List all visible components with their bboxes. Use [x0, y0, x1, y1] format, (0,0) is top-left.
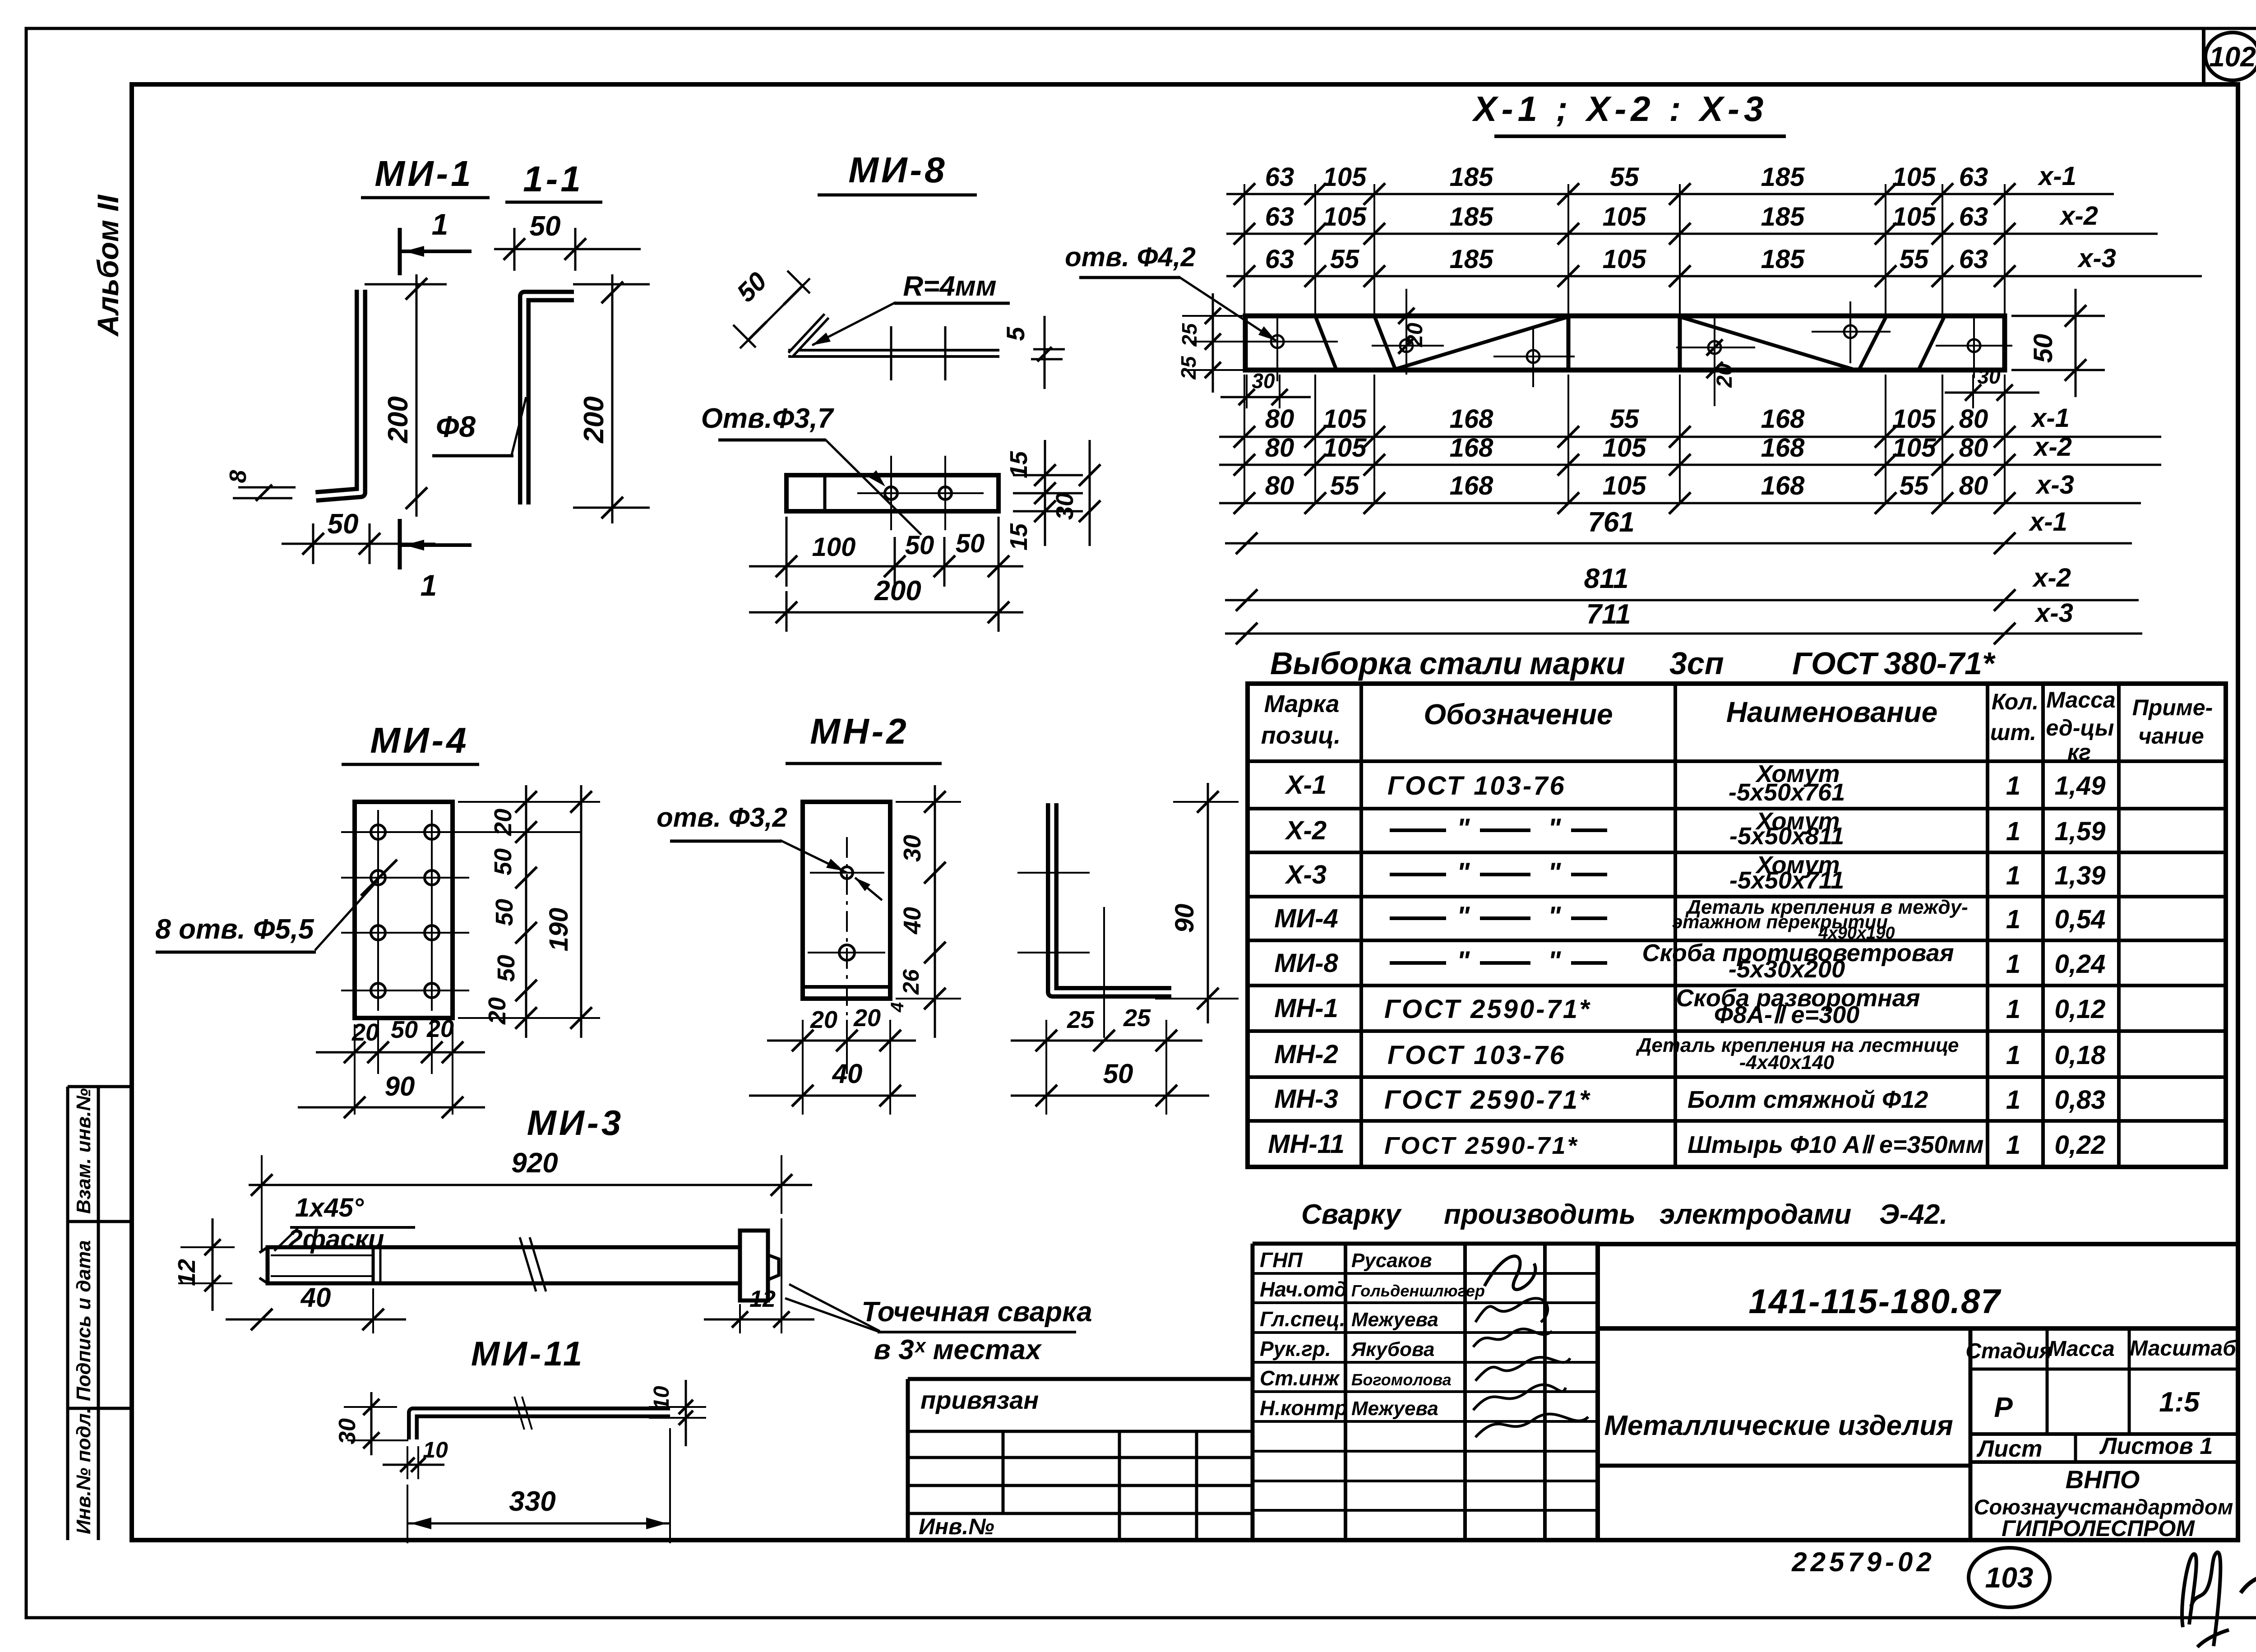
svg-text:": ": [1548, 901, 1562, 931]
МИ-8 plan view plate: [786, 475, 999, 511]
svg-text:х-2: х-2: [2032, 563, 2071, 592]
МН-2 dim 90: [1207, 783, 1209, 1023]
svg-text:Межуева: Межуева: [1351, 1397, 1438, 1420]
svg-text:": ": [1548, 946, 1562, 976]
extension lines to lower dim rows: [1244, 375, 1245, 503]
svg-text:63: 63: [1959, 245, 1988, 274]
svg-text:105: 105: [1603, 202, 1647, 231]
svg-text:10: 10: [423, 1437, 448, 1462]
svg-text:Инв.№: Инв.№: [919, 1514, 994, 1539]
svg-text:20: 20: [1403, 323, 1427, 347]
angle view centerlines: [1017, 872, 1090, 874]
svg-text:30: 30: [334, 1418, 361, 1444]
svg-text:Масштаб: Масштаб: [2130, 1337, 2237, 1360]
svg-text:Точечная сварка: Точечная сварка: [861, 1296, 1092, 1328]
svg-text:30: 30: [1051, 493, 1078, 520]
svg-text:102: 102: [2209, 42, 2256, 73]
strip middle dividers: [1567, 316, 1571, 370]
dim 200 (plan total): [749, 611, 1023, 614]
bolt head: [740, 1231, 768, 1300]
section mark 1 (bottom): [398, 519, 402, 569]
МИ-8 side view: bent-up arm: [791, 316, 827, 355]
dim 30 right below strip: [1972, 375, 1974, 408]
svg-text:190: 190: [544, 908, 573, 952]
svg-text:Р: Р: [1994, 1392, 2013, 1423]
МИ-8 side view: flat bar: [788, 349, 999, 358]
circled page number 103: [1969, 1548, 2050, 1607]
svg-text:25: 25: [1178, 323, 1201, 347]
МИ-4 dim 90: [298, 1106, 485, 1109]
svg-text:100: 100: [812, 532, 856, 562]
svg-text:8: 8: [225, 470, 251, 483]
svg-text:55: 55: [1900, 245, 1929, 274]
dimension row х-1 (lower): [1219, 436, 2161, 438]
svg-text:электродами: электродами: [1660, 1199, 1851, 1230]
svg-text:Стадия: Стадия: [1965, 1339, 2052, 1363]
strip hole 2 with dim 20: [1400, 339, 1413, 352]
svg-text:Инв.№ подл.: Инв.№ подл.: [73, 1408, 95, 1534]
svg-text:30: 30: [899, 835, 926, 862]
svg-text:Болт стяжной Ф12: Болт стяжной Ф12: [1687, 1086, 1928, 1113]
strip hole 6: [1968, 339, 1980, 352]
МИ-4 dim 190: [580, 785, 582, 1038]
svg-text:0,54: 0,54: [2055, 905, 2106, 934]
dim 200 (МИ-1 height): [416, 274, 418, 517]
svg-text:168: 168: [1761, 471, 1805, 500]
svg-text:90: 90: [385, 1071, 415, 1101]
strip body (Хомут): [1245, 316, 2005, 370]
dim 10 (pin thickness right): [649, 1406, 706, 1408]
svg-text:Ст.инж: Ст.инж: [1260, 1366, 1340, 1390]
svg-text:185: 185: [1450, 245, 1494, 274]
svg-text:20: 20: [426, 1015, 454, 1042]
svg-text:МИ-4: МИ-4: [1274, 904, 1338, 933]
МН-2 hole top: [841, 867, 853, 879]
svg-text:63: 63: [1265, 245, 1294, 274]
svg-text:0,12: 0,12: [2055, 995, 2106, 1024]
svg-text:Н.контр: Н.контр: [1260, 1396, 1347, 1420]
dim 25/25 (strip left height): [1212, 293, 1214, 393]
svg-text:30: 30: [1977, 365, 2001, 388]
svg-text:80: 80: [1265, 433, 1294, 463]
dimension row х-3 (lower): [1219, 502, 2141, 504]
svg-text:ГОСТ 103-76: ГОСТ 103-76: [1387, 771, 1566, 801]
МН-2 hole bottom: [839, 945, 855, 960]
extension lines from strip to dim rows: [1244, 184, 1245, 316]
svg-text:63: 63: [1265, 162, 1294, 192]
svg-text:Сварку: Сварку: [1301, 1199, 1402, 1230]
svg-text:1,39: 1,39: [2055, 861, 2106, 890]
svg-text:380-71*: 380-71*: [1884, 646, 1996, 681]
svg-text:105: 105: [1892, 404, 1937, 434]
svg-text:привязан: привязан: [920, 1386, 1039, 1414]
svg-text:0,22: 0,22: [2055, 1130, 2106, 1160]
svg-text:Штырь Ф10 АⅡ е=350мм: Штырь Ф10 АⅡ е=350мм: [1687, 1131, 1983, 1158]
svg-text:х-1: х-1: [2028, 507, 2067, 537]
svg-text:МН-1: МН-1: [1274, 994, 1338, 1023]
svg-text:Э-42.: Э-42.: [1879, 1199, 1947, 1230]
svg-text:3сп: 3сп: [1669, 646, 1724, 681]
sheet number cell top right: [2202, 28, 2205, 84]
svg-text:185: 185: [1761, 245, 1805, 274]
svg-text:105: 105: [1892, 202, 1937, 231]
svg-text:ГОСТ 2590-71*: ГОСТ 2590-71*: [1384, 1132, 1579, 1159]
svg-text:ВНПО: ВНПО: [2066, 1465, 2140, 1494]
svg-text:": ": [1457, 946, 1470, 976]
svg-text:1: 1: [2006, 771, 2020, 801]
svg-text:168: 168: [1450, 404, 1494, 434]
svg-text:168: 168: [1450, 433, 1494, 463]
pin break mark: [514, 1397, 524, 1430]
svg-text:105: 105: [1603, 245, 1647, 274]
svg-text:80: 80: [1959, 433, 1988, 463]
svg-text:50: 50: [2029, 334, 2058, 363]
svg-text:4: 4: [888, 1002, 907, 1013]
svg-text:х-3: х-3: [2034, 598, 2073, 628]
svg-text:": ": [1457, 813, 1470, 843]
svg-text:20: 20: [490, 809, 517, 836]
svg-text:позиц.: позиц.: [1261, 722, 1341, 749]
svg-text:168: 168: [1761, 433, 1805, 463]
svg-text:330: 330: [509, 1486, 555, 1517]
svg-text:50: 50: [328, 509, 359, 540]
svg-text:-4х40х140: -4х40х140: [1739, 1051, 1835, 1074]
svg-text:Подпись и дата: Подпись и дата: [73, 1240, 95, 1401]
svg-text:х-1: х-1: [2030, 403, 2070, 433]
svg-text:ГОСТ 103-76: ГОСТ 103-76: [1387, 1041, 1566, 1070]
МН-2 angle bottom dims 25 25: [1011, 1040, 1202, 1042]
svg-text:105: 105: [1892, 433, 1937, 463]
bolt break mark: [520, 1237, 536, 1291]
signature scribbles: [1484, 1256, 1535, 1290]
strip wedge diagonal left: [1396, 317, 1568, 369]
svg-text:55: 55: [1610, 404, 1639, 434]
dim 330 with arrows: [407, 1485, 408, 1543]
svg-text:1: 1: [432, 208, 448, 241]
svg-text:50: 50: [1103, 1059, 1133, 1089]
dim 30 (bend height): [344, 1406, 397, 1408]
svg-text:": ": [1548, 857, 1562, 888]
svg-text:МИ-1: МИ-1: [374, 153, 473, 194]
svg-text:Гл.спец.: Гл.спец.: [1260, 1307, 1345, 1331]
МН-2 bottom dims 20 20: [767, 1040, 916, 1042]
svg-text:1,49: 1,49: [2055, 771, 2106, 801]
dim 30 left below strip: [1246, 375, 1248, 408]
svg-text:40: 40: [300, 1282, 331, 1313]
svg-text:отв. Ф3,2: отв. Ф3,2: [656, 802, 787, 833]
svg-text:1: 1: [2006, 949, 2020, 979]
svg-text:25: 25: [1123, 1004, 1151, 1032]
svg-text:811: 811: [1584, 563, 1629, 594]
svg-text:в 3ˣ местах: в 3ˣ местах: [874, 1334, 1042, 1365]
attachment table (left of title block): [908, 1377, 1253, 1381]
svg-text:105: 105: [1603, 471, 1647, 500]
svg-text:55: 55: [1330, 245, 1359, 274]
svg-text:185: 185: [1450, 202, 1494, 231]
svg-text:стали: стали: [1419, 646, 1522, 681]
svg-text:50: 50: [491, 899, 518, 926]
svg-text:12: 12: [173, 1259, 200, 1286]
dim 12 (bolt diameter): [180, 1246, 235, 1248]
svg-text:1: 1: [2006, 861, 2020, 890]
svg-text:ГОСТ: ГОСТ: [1792, 646, 1879, 681]
dims 100 50 50 (plan): [749, 565, 1023, 568]
МИ-4 plate: [355, 802, 453, 1018]
svg-text:Альбом II: Альбом II: [91, 194, 125, 337]
strip hole 4 with dim 20: [1708, 341, 1721, 354]
svg-text:Лист: Лист: [1976, 1436, 2043, 1462]
svg-text:80: 80: [1265, 404, 1294, 434]
svg-text:26: 26: [898, 969, 924, 995]
svg-text:200: 200: [578, 396, 610, 443]
svg-text:80: 80: [1959, 404, 1988, 434]
svg-text:5: 5: [1001, 327, 1030, 341]
dim 10 (bend width): [407, 1446, 408, 1479]
svg-text:ГНП: ГНП: [1260, 1248, 1303, 1272]
svg-text:200: 200: [383, 396, 414, 443]
svg-text:50: 50: [956, 529, 985, 558]
svg-text:МИ-4: МИ-4: [370, 720, 469, 760]
МИ-4 right dim chain 20/50/50/50/20: [525, 785, 527, 1038]
dim 12 (head width): [704, 1319, 814, 1321]
svg-text:40: 40: [899, 907, 926, 935]
total dim 761: [1225, 542, 2132, 545]
svg-text:63: 63: [1265, 202, 1294, 231]
svg-text:Якубова: Якубова: [1351, 1338, 1435, 1360]
svg-text:-5х30х200: -5х30х200: [1729, 956, 1845, 983]
svg-text:Металлические изделия: Металлические изделия: [1604, 1410, 1953, 1441]
svg-text:Русаков: Русаков: [1351, 1249, 1432, 1272]
svg-text:1: 1: [2006, 1041, 2020, 1070]
svg-text:40: 40: [832, 1059, 863, 1089]
svg-text:20: 20: [484, 997, 511, 1025]
svg-text:Кол.: Кол.: [1992, 689, 2039, 714]
dim 920: [249, 1184, 812, 1186]
svg-text:55: 55: [1610, 162, 1639, 192]
svg-text:шт.: шт.: [1990, 720, 2036, 745]
total dim 811: [1225, 599, 2139, 602]
svg-text:1: 1: [2006, 995, 2020, 1024]
svg-text:Обозначение: Обозначение: [1424, 698, 1613, 731]
svg-text:Х-2: Х-2: [1285, 816, 1327, 845]
svg-text:Межуева: Межуева: [1351, 1309, 1438, 1331]
svg-text:Взам. инв.№: Взам. инв.№: [73, 1088, 95, 1214]
signature table grid: [1253, 1242, 1600, 1246]
svg-text:105: 105: [1323, 162, 1367, 192]
svg-text:25: 25: [1177, 356, 1200, 380]
strip slant cuts left: [1315, 316, 1336, 370]
dimension row Х-2 (upper): [1226, 233, 2158, 235]
svg-text:200: 200: [874, 575, 921, 606]
svg-text:-5х50х761: -5х50х761: [1729, 779, 1845, 806]
svg-text:Масса: Масса: [2046, 687, 2116, 713]
svg-text:15: 15: [1005, 451, 1032, 478]
dim 50 (1-1 top): [494, 248, 641, 250]
hole 1 in plan: [885, 487, 897, 500]
МИ-4 bottom dims 20 50 20: [316, 1051, 485, 1054]
svg-text:0,18: 0,18: [2055, 1041, 2106, 1070]
title block inner lines: [1969, 1328, 1973, 1540]
svg-text:х-3: х-3: [2035, 470, 2074, 500]
svg-text:Х-1: Х-1: [1285, 770, 1327, 800]
svg-text:55: 55: [1900, 471, 1929, 500]
svg-text:Наименование: Наименование: [1726, 696, 1937, 728]
svg-text:185: 185: [1450, 162, 1494, 192]
strip hole 5: [1844, 325, 1857, 338]
circled sheet number 102: [2205, 32, 2256, 80]
dim 200 (1-1 height): [611, 274, 614, 523]
svg-text:8 отв. Ф5,5: 8 отв. Ф5,5: [155, 914, 314, 945]
1-1 bent bar (Γ-shape): [524, 296, 574, 504]
svg-text:0,24: 0,24: [2055, 949, 2106, 979]
svg-text:0,83: 0,83: [2055, 1085, 2106, 1115]
svg-text:МИ-8: МИ-8: [848, 150, 947, 190]
strip hole 1: [1271, 335, 1284, 348]
svg-text:185: 185: [1761, 162, 1805, 192]
dim 50 (strip height right): [2011, 315, 2105, 317]
svg-text:1х45°: 1х45°: [295, 1193, 364, 1222]
svg-text:761: 761: [1588, 507, 1634, 538]
МН-2 dim 40: [749, 1095, 916, 1097]
МН-2 plate front view: [803, 802, 890, 999]
strip hole 3: [1527, 350, 1539, 363]
dimension row Х-3 (upper): [1226, 275, 2202, 278]
svg-text:20: 20: [853, 1004, 881, 1032]
svg-text:168: 168: [1450, 471, 1494, 500]
МН-2 angle side view: [1052, 803, 1171, 992]
svg-text:10: 10: [650, 1386, 674, 1410]
МИ-4 holes with centerlines: [341, 831, 469, 833]
strip slant cuts right: [1859, 316, 1886, 370]
svg-text:711: 711: [1586, 599, 1631, 630]
svg-text:МИ-11: МИ-11: [471, 1335, 585, 1373]
svg-text:": ": [1548, 813, 1562, 843]
svg-text:15: 15: [1005, 523, 1032, 551]
svg-text:МН-2: МН-2: [1274, 1040, 1338, 1069]
svg-text:ГОСТ 2590-71*: ГОСТ 2590-71*: [1384, 995, 1591, 1024]
svg-text:185: 185: [1761, 202, 1805, 231]
svg-text:1: 1: [2006, 817, 2020, 846]
svg-text:х-3: х-3: [2077, 244, 2116, 273]
svg-text:": ": [1457, 901, 1470, 931]
svg-text:МН-3: МН-3: [1274, 1084, 1338, 1114]
svg-text:105: 105: [1603, 433, 1647, 463]
dim 8 (thickness): [238, 486, 296, 489]
svg-text:50: 50: [530, 211, 561, 242]
svg-text:20: 20: [1713, 363, 1737, 388]
dimension row Х-1 (upper): [1226, 193, 2114, 195]
svg-text:Выборка: Выборка: [1270, 646, 1412, 681]
dims 15 15 30 (plan right): [1013, 474, 1083, 477]
svg-text:50: 50: [493, 955, 520, 982]
svg-text:Отв.Ф3,7: Отв.Ф3,7: [701, 403, 834, 434]
svg-text:105: 105: [1323, 202, 1367, 231]
svg-text:ГИПРОЛЕСПРОМ: ГИПРОЛЕСПРОМ: [2002, 1516, 2195, 1541]
svg-text:Масса: Масса: [2048, 1337, 2114, 1361]
svg-text:Листов 1: Листов 1: [2099, 1433, 2213, 1459]
svg-text:Х-3: Х-3: [1285, 860, 1327, 889]
svg-text:МИ-8: МИ-8: [1274, 949, 1338, 978]
МН-2 vertical centerline: [846, 837, 848, 1015]
svg-text:Богомолова: Богомолова: [1351, 1370, 1452, 1389]
svg-text:1,59: 1,59: [2055, 817, 2106, 846]
svg-text:": ": [1457, 857, 1470, 888]
dim 50 (МИ-1 foot): [282, 543, 435, 545]
svg-text:1:5: 1:5: [2159, 1387, 2200, 1418]
svg-text:х-1: х-1: [2037, 162, 2076, 191]
МИ-3 bolt body: [268, 1247, 740, 1283]
svg-text:90: 90: [1170, 904, 1199, 933]
svg-text:920: 920: [511, 1148, 558, 1179]
svg-text:20: 20: [351, 1019, 379, 1046]
svg-text:50: 50: [490, 848, 517, 875]
svg-text:МН-2: МН-2: [810, 711, 909, 751]
svg-text:2фаски: 2фаски: [288, 1225, 384, 1254]
hole 2 in plan: [939, 487, 952, 500]
svg-text:103: 103: [1985, 1561, 2034, 1594]
svg-text:50: 50: [905, 531, 934, 560]
dimension row х-2 (lower): [1219, 464, 2161, 466]
svg-text:марки: марки: [1530, 646, 1625, 681]
svg-text:ед-цы: ед-цы: [2046, 715, 2114, 740]
svg-text:Приме-: Приме-: [2132, 695, 2213, 720]
svg-text:50: 50: [391, 1016, 418, 1043]
МН-2 angle dim 50: [1011, 1095, 1209, 1097]
МН-2 right dim chain 30/40/26/4: [934, 785, 936, 1038]
left stamp column boxes: [66, 1087, 69, 1540]
svg-text:отв. Ф4,2: отв. Ф4,2: [1065, 242, 1196, 272]
hole centerline ticks on side view: [890, 326, 892, 380]
svg-text:Ф8А-Ⅱ е=300: Ф8А-Ⅱ е=300: [1714, 1001, 1859, 1028]
svg-text:105: 105: [1323, 404, 1367, 434]
strip wedge diagonal right: [1680, 317, 1853, 369]
svg-text:168: 168: [1761, 404, 1805, 434]
svg-text:R=4мм: R=4мм: [903, 271, 996, 302]
svg-text:1: 1: [2006, 1130, 2020, 1160]
svg-text:Марка: Марка: [1264, 690, 1340, 717]
dim 40 (thread length): [226, 1319, 406, 1321]
svg-text:х-2: х-2: [2059, 201, 2098, 231]
svg-text:МИ-3: МИ-3: [527, 1103, 624, 1143]
bolt thread end: [372, 1247, 375, 1283]
svg-text:Нач.отд: Нач.отд: [1260, 1277, 1347, 1301]
svg-text:30: 30: [1252, 369, 1275, 393]
svg-text:кг: кг: [2067, 740, 2091, 765]
leaders to weld points: [789, 1284, 880, 1331]
svg-text:Рук.гр.: Рук.гр.: [1260, 1337, 1331, 1360]
svg-text:чание: чание: [2138, 723, 2204, 749]
svg-text:х-2: х-2: [2033, 432, 2072, 462]
svg-text:22579-02: 22579-02: [1791, 1547, 1935, 1577]
dim 5 (thickness): [1033, 348, 1065, 351]
svg-text:1: 1: [2006, 905, 2020, 934]
svg-text:80: 80: [1265, 471, 1294, 500]
svg-text:Ф8: Ф8: [436, 410, 476, 443]
svg-text:1-1: 1-1: [523, 159, 583, 199]
МИ-11 bent pin: [413, 1412, 670, 1439]
total dim 711: [1225, 633, 2142, 635]
svg-text:-5х50х811: -5х50х811: [1729, 823, 1844, 850]
svg-text:105: 105: [1323, 433, 1367, 463]
svg-text:-5х50х711: -5х50х711: [1729, 867, 1844, 894]
svg-text:1: 1: [421, 569, 437, 602]
svg-text:141-115-180.87: 141-115-180.87: [1748, 1282, 2002, 1321]
svg-text:80: 80: [1959, 471, 1988, 500]
svg-text:63: 63: [1959, 162, 1988, 192]
svg-text:55: 55: [1330, 471, 1359, 500]
section mark 1 (top): [398, 228, 402, 275]
svg-text:ГОСТ 2590-71*: ГОСТ 2590-71*: [1384, 1085, 1591, 1115]
